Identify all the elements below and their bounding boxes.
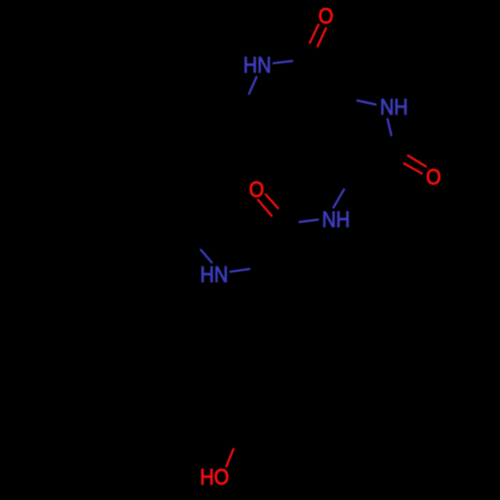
svg-text:O: O xyxy=(426,165,441,189)
bond N4-C8 xyxy=(201,250,212,263)
svg-text:HN: HN xyxy=(243,53,271,77)
bond C2=O1 double line a xyxy=(310,25,319,43)
bond C5=O2 double line a xyxy=(408,156,426,167)
bond O4-C10 xyxy=(226,449,233,466)
bond C4-N2 xyxy=(357,101,375,105)
bond C2=O1 double line b xyxy=(318,28,326,46)
svg-text:O: O xyxy=(318,4,333,28)
bond N3-C7 xyxy=(334,189,345,207)
bond N4-C9 xyxy=(231,269,250,272)
bond N2-C5 xyxy=(388,119,392,135)
bond N3-C6 xyxy=(300,220,319,222)
bond C5=O2 double line b xyxy=(404,163,422,173)
bond N1-C3 xyxy=(249,77,257,94)
bond C6=O3 double line b xyxy=(258,200,272,216)
svg-text:HO: HO xyxy=(200,465,229,489)
bond C6=O3 double line a xyxy=(266,194,278,208)
svg-text:NH: NH xyxy=(380,95,408,119)
svg-text:HN: HN xyxy=(200,263,228,287)
svg-text:O: O xyxy=(249,178,264,202)
svg-text:NH: NH xyxy=(322,208,350,232)
bond N1-C2 xyxy=(274,61,293,63)
